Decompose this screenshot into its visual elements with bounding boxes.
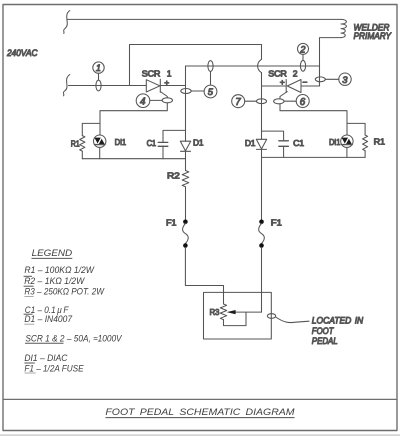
svg-text:FOOT: FOOT: [312, 326, 335, 336]
diac DI1 (right): [329, 135, 353, 147]
svg-text:R1: R1: [374, 136, 386, 146]
svg-text:240VAC: 240VAC: [6, 48, 38, 58]
svg-text:D1 – IN4007: D1 – IN4007: [24, 314, 73, 324]
svg-text:1: 1: [96, 63, 101, 73]
legend rule under LEGEND: [32, 257, 73, 259]
svg-text:2: 2: [299, 45, 305, 55]
diode D1 (left): [180, 138, 204, 152]
svg-text:DI1: DI1: [115, 137, 127, 147]
SCR U1 "SCR 1": [142, 68, 172, 92]
svg-text:4: 4: [140, 97, 146, 108]
capacitor C1 (right): [279, 138, 305, 158]
note LOCATED IN FOOT PEDAL: [312, 316, 364, 346]
svg-text:D1: D1: [245, 138, 256, 148]
svg-text:DI1: DI1: [329, 137, 341, 147]
wire F1 left to foot pedal R3 top: [185, 248, 223, 305]
potentiometer R3: [210, 304, 262, 326]
bottom scan band: [0, 434, 400, 436]
svg-text:PEDAL: PEDAL: [312, 336, 338, 346]
connector 5 (upper oval on cathode rail): [181, 61, 217, 98]
wire diac right bottom: [346, 147, 348, 157]
svg-text:R2 – 1KΩ 1/2W: R2 – 1KΩ 1/2W: [24, 276, 85, 286]
svg-text:5: 5: [208, 86, 214, 97]
title FOOT PEDAL SCHEMATIC DIAGRAM: [105, 407, 294, 418]
wire top rail riser lower part: [261, 101, 263, 131]
svg-text:−: −: [302, 77, 307, 87]
wire cathode rail down to SCR2 cathode: [301, 66, 320, 86]
wire cathode horizontal rail: [186, 65, 320, 67]
resistor R2: [167, 171, 189, 187]
svg-text:PRIMARY: PRIMARY: [354, 31, 392, 41]
wire main to top rail riser: [130, 45, 262, 86]
svg-text:LEGEND: LEGEND: [32, 248, 73, 258]
svg-text:F1: F1: [166, 217, 177, 227]
wire cathode rail (vertical + horizontal to SCR2 side with hop): [185, 66, 187, 86]
wire riser to SCR2 anode: [262, 85, 287, 87]
wire gate node down to diac: [99, 123, 101, 134]
wire gate node down to diac right: [346, 123, 348, 135]
resistor R1 (right): [363, 135, 386, 157]
svg-text:FOOT PEDAL SCHEMATIC DIAGRAM: FOOT PEDAL SCHEMATIC DIAGRAM: [105, 407, 294, 417]
wire SCR1 cathode down to snubber: [185, 86, 187, 142]
fuse F1 (right): [259, 217, 283, 247]
wire 240VAC hot to SCR1 anode: [69, 85, 147, 87]
legend text block: [24, 248, 122, 373]
svg-text:7: 7: [235, 97, 241, 108]
connector 3: [315, 73, 351, 85]
legend overline F1: [24, 362, 34, 364]
wire SCR1 cathode to junction: [160, 85, 185, 87]
svg-text:6: 6: [300, 97, 306, 108]
wire D1 right down to fuse: [261, 149, 263, 219]
connector 4: [136, 94, 172, 108]
wire gate node branch to R1 right: [347, 123, 365, 135]
svg-text:SCR 1 & 2 – 50A, ≈1000V: SCR 1 & 2 – 50A, ≈1000V: [25, 334, 122, 344]
wire hop: riser jumps over cathode rail: [258, 59, 262, 72]
connector 1: [93, 62, 104, 91]
svg-text:LOCATED IN: LOCATED IN: [312, 316, 364, 326]
svg-text:R3: R3: [210, 307, 220, 317]
svg-text:F1: F1: [271, 217, 282, 227]
wire D1 to R2: [185, 151, 187, 170]
fuse F1 (left): [166, 217, 188, 247]
legend overline D1: [24, 313, 33, 315]
svg-text:D1: D1: [193, 138, 204, 148]
SCR U2 "SCR 2": [268, 69, 307, 93]
wire C1 left branch: [163, 130, 186, 142]
inductor welder primary winding: [341, 19, 346, 37]
legend underline F1 (faint): [25, 372, 36, 374]
source break squiggle main 240VAC line: [63, 75, 69, 96]
connector 7: [232, 95, 267, 108]
wire riser below hop: [261, 73, 263, 101]
legend overline R3: [24, 285, 34, 287]
legend overline R2: [24, 275, 32, 277]
connector 6: [274, 95, 310, 108]
label WELDER PRIMARY: [354, 23, 392, 42]
wire F1 right to pot wiper: [261, 248, 263, 313]
svg-text:3: 3: [342, 74, 348, 85]
legend rule under SCR line: [25, 342, 64, 344]
legend underline D1 (faint): [24, 323, 34, 325]
svg-text:2: 2: [293, 69, 298, 79]
svg-text:SCR: SCR: [142, 68, 160, 78]
SCR1 gate wire: [160, 92, 167, 98]
source break squiggle top 240VAC line: [64, 11, 70, 34]
wire 240VAC top line to welder primary: [67, 18, 341, 20]
capacitor C1 (left): [147, 138, 168, 159]
svg-text:R1 – 100KΩ 1/2W: R1 – 100KΩ 1/2W: [24, 265, 95, 275]
svg-text:+: +: [164, 78, 169, 88]
SCR2 gate wire: [280, 92, 287, 99]
diac DI1 (left): [94, 135, 127, 147]
wire SCR2 gate to diac network: [280, 104, 347, 124]
svg-text:R1: R1: [71, 139, 80, 149]
connector oval on pedal box edge: [267, 314, 275, 319]
svg-text:C1: C1: [293, 138, 304, 148]
diode D1 (right): [245, 138, 267, 150]
wire SCR1 gate to diac network: [100, 103, 167, 124]
wire welder primary bottom to SCR cathodes: [320, 38, 342, 86]
leader line to note: [276, 317, 309, 323]
svg-text:R3 – 250KΩ POT. 2W: R3 – 250KΩ POT. 2W: [24, 286, 105, 296]
wire C1 right branch: [262, 131, 284, 141]
svg-text:R2: R2: [167, 171, 180, 181]
wire R2 to fuse F1 left: [185, 187, 187, 220]
svg-text:F1 – 1/2A FUSE: F1 – 1/2A FUSE: [24, 363, 84, 373]
wire diac bottom: [99, 147, 101, 158]
connector 2: [298, 43, 309, 71]
svg-text:C1: C1: [147, 138, 157, 148]
enclosure foot pedal box: [204, 292, 272, 339]
legend underline R3 (faint): [24, 296, 33, 298]
wire gate node branch to R1: [82, 123, 100, 135]
wire right network bottom rail: [262, 156, 366, 158]
wire riser snubber (right) down: [261, 131, 263, 139]
resistor R1 (left): [71, 136, 85, 159]
svg-text:DI1 – DIAC: DI1 – DIAC: [24, 353, 67, 363]
wire left network bottom rail: [82, 158, 185, 160]
